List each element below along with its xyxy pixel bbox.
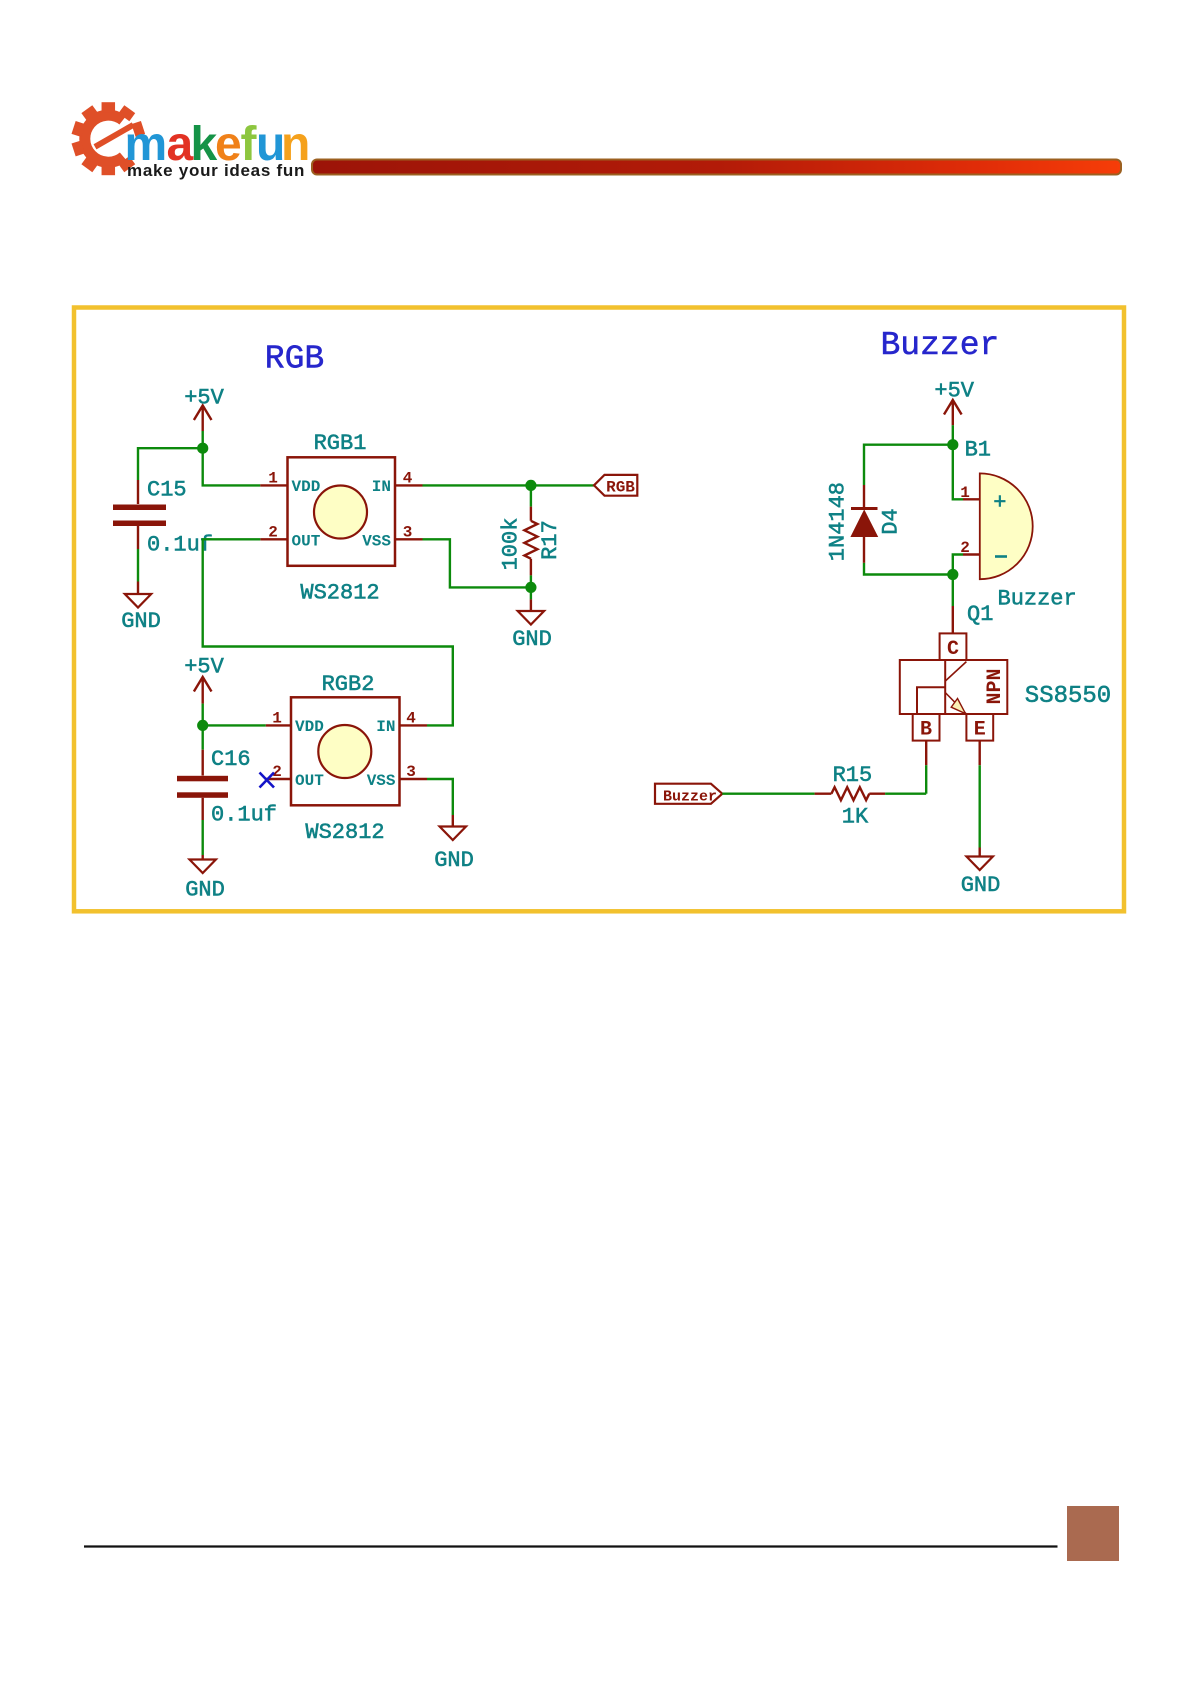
pin E <box>966 714 993 741</box>
pin 2 OUT (RGB2, no connect) <box>266 778 291 780</box>
logo wordmark makefun <box>125 118 311 171</box>
wire VSS to R17 bottom junction <box>423 539 531 587</box>
power symbol +5V (RGB2) <box>194 677 212 704</box>
svg-text:Q1: Q1 <box>967 602 993 627</box>
svg-text:0.1uf: 0.1uf <box>211 803 277 828</box>
svg-text:4: 4 <box>403 470 413 488</box>
wire IN pin to RGB flag <box>423 484 595 486</box>
node junction B1 top <box>947 439 958 450</box>
svg-text:+5V: +5V <box>184 655 224 680</box>
svg-text:VSS: VSS <box>362 533 391 551</box>
net label RGB <box>594 475 637 497</box>
wire R15 to base node <box>885 793 926 795</box>
svg-text:100k: 100k <box>499 518 524 571</box>
svg-text:C15: C15 <box>147 478 187 503</box>
pin 1 VDD <box>260 484 287 486</box>
svg-text:WS2812: WS2812 <box>305 820 384 845</box>
ground GND (C16) <box>185 855 225 903</box>
ground GND (Q1 emitter) <box>961 848 1001 899</box>
wire RGB2 VSS to GND <box>427 779 453 815</box>
capacitor C16 <box>177 747 277 828</box>
pin 4 IN (RGB2) <box>400 724 428 726</box>
wire junction to GND (R17) <box>530 587 532 599</box>
wire Buzzer flag to R15 <box>722 793 814 795</box>
svg-text:GND: GND <box>434 848 474 873</box>
svg-text:B1: B1 <box>965 438 991 463</box>
svg-text:IN: IN <box>372 478 391 496</box>
footer page marker square <box>1067 1506 1119 1561</box>
wire base lead to R15 node <box>925 765 927 794</box>
RGB LED RGB1 (WS2812) <box>260 431 422 606</box>
no-connect X on RGB2 OUT <box>260 773 275 788</box>
svg-text:RGB: RGB <box>606 479 635 497</box>
svg-text:+5V: +5V <box>934 379 974 404</box>
svg-text:3: 3 <box>403 524 413 542</box>
svg-text:R15: R15 <box>833 763 873 788</box>
svg-text:GND: GND <box>512 627 552 652</box>
diode D4 1N4148 <box>826 482 904 563</box>
transistor Q1 SS8550 <box>900 602 1111 765</box>
svg-text:C16: C16 <box>211 747 251 772</box>
wire junction to Q1 collector <box>952 575 954 607</box>
pin 3 VSS (RGB2) <box>400 778 428 780</box>
wire emitter to GND <box>979 765 981 847</box>
svg-text:E: E <box>974 719 986 742</box>
svg-text:1: 1 <box>272 710 282 728</box>
node junction R17 bottom <box>525 582 536 593</box>
svg-text:1K: 1K <box>842 805 869 830</box>
svg-text:GND: GND <box>121 609 161 634</box>
footer rule <box>84 1545 1058 1547</box>
wire RGB1 OUT to RGB2 IN <box>203 539 453 725</box>
svg-text:C: C <box>947 638 959 661</box>
resistor R17 <box>499 490 564 575</box>
wire junction to VDD pin RGB1 <box>203 448 261 485</box>
wire R17 bottom to junction <box>530 575 532 587</box>
wire B1 junction to buzzer pin1 <box>953 445 963 500</box>
svg-text:4: 4 <box>406 710 416 728</box>
power symbol +5V (Buzzer) <box>944 400 962 425</box>
ground GND (C15) <box>121 582 161 635</box>
pin 2 OUT <box>260 538 287 540</box>
power symbol +5V (RGB1) <box>194 406 212 432</box>
wire buzzer pin2 to lower junction <box>953 555 963 575</box>
buzzer B1 body <box>960 473 1077 611</box>
pin B <box>913 714 940 741</box>
node junction RGB1 +5V <box>197 443 208 454</box>
svg-text:RGB2: RGB2 <box>322 672 375 697</box>
node junction RGB2 +5V <box>197 720 208 731</box>
svg-text:RGB1: RGB1 <box>314 431 367 456</box>
svg-text:make your ideas fun: make your ideas fun <box>127 161 305 180</box>
wire +5V stem to junction B1 <box>952 425 954 445</box>
wire +5V stem to junction (RGB2) <box>201 704 203 726</box>
wire junction to VDD pin RGB2 <box>203 724 266 726</box>
svg-text:OUT: OUT <box>295 772 324 790</box>
svg-text:3: 3 <box>406 763 416 781</box>
schematic sheet frame <box>74 308 1124 912</box>
svg-text:VSS: VSS <box>367 772 396 790</box>
svg-text:R17: R17 <box>538 520 563 560</box>
pin C <box>940 633 967 660</box>
orange crossbar of the e <box>94 122 135 149</box>
wire C15 to GND <box>137 549 139 582</box>
capacitor C15 <box>113 478 213 558</box>
wire junction down to C16 <box>201 725 203 749</box>
wire C16 to GND <box>201 820 203 855</box>
svg-text:GND: GND <box>185 878 225 903</box>
svg-text:Buzzer: Buzzer <box>663 788 717 805</box>
logo gear (emakefun 'e') <box>72 102 146 175</box>
wire junction to C15 <box>138 448 203 480</box>
transistor body <box>900 660 1008 714</box>
svg-text:OUT: OUT <box>292 533 321 551</box>
buzzer pin 2 <box>963 553 980 555</box>
net label Buzzer <box>655 784 722 806</box>
emitter arrowhead <box>951 699 965 714</box>
svg-text:1N4148: 1N4148 <box>826 482 851 561</box>
node junction at R17 top <box>525 480 536 491</box>
wire +5V stem to junction (RGB1) <box>201 431 203 448</box>
svg-text:D4: D4 <box>879 508 904 534</box>
svg-text:GND: GND <box>961 873 1001 898</box>
svg-text:RGB: RGB <box>265 341 324 378</box>
node junction buzzer pin2 <box>947 569 958 580</box>
resistor R15 <box>815 763 886 830</box>
pin 4 IN <box>395 484 423 486</box>
ground GND (RGB2 VSS) <box>434 815 474 873</box>
svg-text:SS8550: SS8550 <box>1025 683 1111 710</box>
svg-text:+5V: +5V <box>184 386 224 411</box>
svg-text:Buzzer: Buzzer <box>880 327 999 364</box>
wire junction around diode loop <box>864 445 953 575</box>
svg-text:B: B <box>920 719 932 742</box>
svg-text:+: + <box>993 491 1006 516</box>
svg-text:VDD: VDD <box>295 718 324 736</box>
svg-text:2: 2 <box>268 524 278 542</box>
svg-text:IN: IN <box>376 718 395 736</box>
pin 1 VDD (RGB2) <box>266 724 291 726</box>
svg-text:1: 1 <box>268 470 278 488</box>
ground GND (R17) <box>512 599 552 652</box>
svg-text:WS2812: WS2812 <box>300 581 379 606</box>
RGB LED RGB2 (WS2812) <box>266 672 427 845</box>
pin 3 VSS <box>395 538 423 540</box>
svg-text:VDD: VDD <box>292 478 321 496</box>
svg-text:NPN: NPN <box>984 668 1007 704</box>
buzzer pin 1 <box>963 498 980 500</box>
svg-text:Buzzer: Buzzer <box>998 587 1077 612</box>
